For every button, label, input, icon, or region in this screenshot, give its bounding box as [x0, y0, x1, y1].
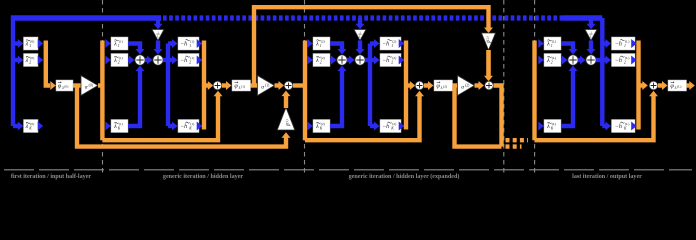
- wire A vertical stage L: [532, 41, 536, 141]
- svg-text:−h: −h: [180, 124, 187, 130]
- separator dashed line 2: [304, 0, 306, 173]
- wire hK out stage 2: [399, 122, 405, 131]
- adder U2 stage 2: [355, 55, 365, 65]
- wire C vertical stage L: [636, 41, 640, 130]
- wire amp2 to adder b3: [475, 83, 480, 87]
- adder final: [649, 81, 658, 90]
- wire lambda2 out stage 2: [330, 58, 334, 62]
- svg-text:2: 2: [118, 60, 120, 64]
- wire bus drop into scaler stage 1: [156, 18, 160, 24]
- box lambda2 (L): [544, 54, 561, 67]
- svg-text:1: 1: [551, 44, 553, 48]
- wire busP a1 from A2 to adder3: [305, 96, 420, 141]
- svg-text:1: 1: [624, 44, 626, 48]
- adder b stage2: [284, 81, 293, 90]
- box lambda1 (L): [544, 37, 561, 50]
- wire adder1-adder2 stage L: [578, 58, 583, 62]
- svg-text:first iteration / input half-l: first iteration / input half-layer: [11, 174, 92, 180]
- wire top blue bus solid left: [11, 15, 161, 20]
- svg-text:λ: λ: [113, 42, 117, 48]
- wire final output arrow: [687, 83, 690, 87]
- wire sumtri to adder b: [284, 96, 288, 109]
- wire a1 path to A2: [293, 83, 305, 87]
- wire adder3 to phi2: [424, 83, 429, 87]
- adder U1 stage L: [568, 55, 578, 65]
- wire C to output adder stage 1: [204, 83, 209, 87]
- gain triangle beta2 down: [482, 33, 496, 50]
- svg-text:last iteration / output layer: last iteration / output layer: [572, 174, 642, 180]
- separator dashed line 3: [503, 0, 505, 173]
- svg-text:λ: λ: [315, 124, 319, 130]
- wire top orange into beta2 tri: [486, 27, 490, 29]
- svg-text:2: 2: [320, 60, 322, 64]
- wire C vertical stage 2: [404, 41, 408, 130]
- wire C vertical stage 1: [202, 41, 206, 130]
- wire arrow into h box stage 2: [370, 58, 374, 62]
- wire B vertical stage 2: [368, 44, 372, 127]
- svg-text:−h: −h: [615, 124, 622, 130]
- svg-text:−h: −h: [180, 58, 187, 64]
- svg-text:2: 2: [189, 60, 191, 64]
- box hK (L): [612, 120, 636, 133]
- wire busP a(L-1) from A4 to final adder: [535, 96, 654, 141]
- svg-text:−h: −h: [382, 124, 389, 130]
- box hK (1): [178, 120, 199, 133]
- wire adder2 out to B stage 2: [365, 58, 370, 62]
- wire beta2 to adder b3: [486, 50, 491, 76]
- svg-text:−h: −h: [382, 58, 389, 64]
- wire arrow into lambdaL box 1: [538, 39, 544, 48]
- wire top blue bus solid right: [563, 15, 602, 20]
- svg-text:−h: −h: [615, 58, 622, 64]
- svg-text:(1): (1): [241, 85, 245, 89]
- wire bus drop into scaler stage L: [589, 18, 593, 24]
- label generic iteration / hidden layer: [163, 174, 244, 180]
- box lambdaK (L): [544, 120, 561, 133]
- svg-text:α: α: [85, 85, 88, 91]
- wire amp1 to adder b: [275, 83, 280, 87]
- wire lambdaK out stage 1: [128, 71, 140, 127]
- wire arrow into lambda0 box 1: [13, 41, 19, 45]
- svg-text:(2): (2): [443, 85, 447, 89]
- box lambda2 (1): [111, 54, 128, 67]
- wire arrow into h box stage 1: [168, 124, 172, 128]
- separator dashed line 1: [102, 0, 104, 173]
- box phi (2): [434, 80, 453, 91]
- box lambdaK (0): [24, 120, 39, 133]
- wire lambda0 box output arrow: [38, 56, 44, 65]
- gain triangle beta1 up: [277, 108, 295, 131]
- wire arrow into lambda2 box 2: [307, 56, 313, 65]
- wire top blue bus dotted: [163, 15, 563, 20]
- box phi (1): [232, 80, 251, 91]
- svg-text:1: 1: [118, 44, 120, 48]
- wire h1 out stage 1: [197, 39, 203, 48]
- wire h1 out stage 2: [399, 39, 405, 48]
- svg-text:2: 2: [29, 60, 31, 64]
- svg-text:1: 1: [189, 44, 191, 48]
- wire top blue corner into B4: [600, 18, 604, 44]
- svg-text:λ: λ: [113, 58, 117, 64]
- svg-text:φ: φ: [234, 83, 238, 90]
- box lambda1 (0): [24, 37, 39, 50]
- wire lambda0 box output arrow: [38, 39, 44, 48]
- svg-text:λ: λ: [546, 42, 550, 48]
- wire arrow into h box stage 1: [168, 41, 172, 45]
- wire arrow into h box stage L: [602, 41, 605, 45]
- amp a(2): [458, 76, 475, 96]
- wire lambda2 out stage L: [561, 58, 565, 62]
- wire arrow into lambda1 box 1: [105, 39, 111, 48]
- box h2 (2): [380, 54, 401, 67]
- wire scaler to adder2 stage 1: [156, 41, 160, 50]
- wire dotted bus row2 gap: [506, 144, 522, 148]
- svg-text:φ: φ: [436, 83, 440, 90]
- svg-text:−h: −h: [615, 42, 622, 48]
- wire arrow into lambdaL box 2: [538, 56, 544, 65]
- scaler triangle stage 1: [152, 30, 164, 41]
- wire h2 out stage 1: [197, 56, 203, 65]
- box lambda1 (1): [111, 37, 128, 50]
- wire C to output adder stage L: [639, 83, 644, 87]
- wire hK out stage 1: [197, 122, 203, 131]
- svg-text:(0): (0): [64, 85, 68, 89]
- box lambdaK (2): [313, 120, 330, 133]
- wire h2 out stage L: [631, 56, 637, 65]
- wire phi1 to amp1: [251, 83, 259, 87]
- wire adder1-adder2 stage 1: [145, 58, 150, 62]
- amp a(1): [258, 76, 275, 96]
- svg-text:1: 1: [29, 44, 31, 48]
- wire hK out stage L: [631, 122, 637, 131]
- wire input vertical: [11, 16, 15, 126]
- wire B vertical stage 1: [166, 44, 170, 127]
- wire arrow into lambda2 box 1: [307, 39, 313, 48]
- box phi (L): [668, 80, 687, 91]
- svg-text:λ: λ: [25, 58, 29, 64]
- wire amp0 output: [98, 83, 105, 87]
- label generic iteration / hidden layer (expanded): [349, 173, 460, 180]
- adder main stage2 output: [415, 81, 424, 90]
- wire A vertical stage 2: [303, 41, 307, 141]
- svg-text:generic iteration / hidden lay: generic iteration / hidden layer (expand…: [349, 173, 460, 180]
- wire busP a0 from A1 to adder: [102, 96, 218, 141]
- bottom rule: [4, 169, 692, 171]
- svg-text:φ: φ: [670, 83, 674, 90]
- box lambdaK (1): [111, 120, 128, 133]
- label last iteration / output layer: [572, 174, 642, 180]
- wire arrow into lambda0 box K: [13, 124, 19, 128]
- wire lambda1 out stage 2: [330, 44, 342, 50]
- svg-text:2: 2: [391, 60, 393, 64]
- svg-text:α: α: [261, 85, 264, 91]
- adder U1 stage 1: [135, 55, 145, 65]
- svg-text:generic iteration / hidden lay: generic iteration / hidden layer: [163, 174, 244, 180]
- box phi (0): [56, 80, 73, 91]
- svg-text:λ: λ: [25, 42, 29, 48]
- box lambda2 (2): [313, 54, 330, 67]
- box h1 (1): [178, 37, 199, 50]
- svg-text:−h: −h: [382, 42, 389, 48]
- svg-text:α: α: [461, 85, 464, 91]
- scaler triangle stage L: [585, 30, 597, 41]
- wire a2 path corner down: [494, 86, 502, 147]
- svg-text:1: 1: [391, 44, 393, 48]
- wire adder2 out to B stage 1: [163, 58, 168, 62]
- wire arrow into h box stage 1: [168, 58, 172, 62]
- wire arrow into h box stage L: [602, 58, 605, 62]
- wire lambdaK out stage 2: [330, 71, 342, 127]
- box hK (2): [380, 120, 401, 133]
- label first iteration / input half-layer: [11, 174, 92, 180]
- box lambda1 (2): [313, 37, 330, 50]
- wire dotted bus row1 gap: [506, 138, 529, 142]
- svg-text:λ: λ: [546, 124, 550, 130]
- wire C to output adder stage 2: [406, 83, 411, 87]
- wire h2 out stage 2: [399, 56, 405, 65]
- wire arrow into lambda2 box K: [307, 122, 313, 131]
- wire arrow into lambda0 box 2: [13, 58, 19, 62]
- adder main stage1 output: [213, 81, 222, 90]
- wire arrow into h box stage L: [602, 124, 605, 128]
- wire h1 out stage L: [631, 39, 637, 48]
- scaler triangle stage 2: [354, 30, 366, 41]
- svg-text:φ: φ: [58, 83, 62, 90]
- svg-text:−h: −h: [180, 42, 187, 48]
- wire lambdaK out stage L: [561, 71, 573, 127]
- svg-text:2: 2: [551, 60, 553, 64]
- wire scaler to adder2 stage 2: [358, 41, 362, 50]
- wire final adder to phiL: [658, 83, 663, 87]
- wire B vertical stage L: [600, 44, 604, 127]
- wire lambda0 box output arrow: [38, 122, 44, 131]
- box h2 (1): [178, 54, 199, 67]
- svg-text:(L): (L): [677, 85, 681, 89]
- wire adder2 out to B stage L: [596, 58, 603, 62]
- wire lambda1 out stage L: [561, 44, 573, 50]
- svg-text:λ: λ: [546, 58, 550, 64]
- adder U2 stage L: [586, 55, 596, 65]
- wire arrow into lambda1 box 2: [105, 56, 111, 65]
- wire busQ phi0-branch to sum-tri: [77, 86, 286, 147]
- separator dashed line 4: [534, 0, 536, 173]
- wire adder1-adder2 stage 2: [347, 58, 352, 62]
- wire arrow into h box stage 2: [370, 124, 374, 128]
- wire top orange bus: [254, 7, 489, 85]
- svg-text:λ: λ: [315, 58, 319, 64]
- wire phi2 to amp2 and down-branch: [453, 83, 459, 87]
- wire arrow into lambdaL box K: [538, 122, 544, 131]
- wire phi2 branch down busQ3: [455, 86, 502, 147]
- wire phi0 to amp: [73, 83, 82, 87]
- svg-text:λ: λ: [315, 42, 319, 48]
- box h1 (2): [380, 37, 401, 50]
- wire arrow into lambda1 box K: [105, 122, 111, 131]
- wire scaler to adder2 stage L: [589, 41, 593, 50]
- box h1 (L): [612, 37, 636, 50]
- adder U1 stage 2: [337, 55, 347, 65]
- wire adder to phi1: [222, 83, 227, 87]
- wire lambda2 out stage 1: [128, 58, 132, 62]
- box lambda2 (0): [24, 54, 39, 67]
- adder U2 stage 1: [153, 55, 163, 65]
- box h2 (L): [612, 54, 636, 67]
- svg-text:λ: λ: [25, 124, 29, 130]
- wire lambda1 out stage 1: [128, 44, 140, 50]
- wire collector E vertical: [46, 41, 50, 86]
- wire A vertical stage 1: [100, 41, 104, 141]
- wire bus drop into scaler stage 2: [358, 18, 362, 24]
- svg-text:λ: λ: [113, 124, 117, 130]
- svg-text:1: 1: [320, 44, 322, 48]
- amp a(0): [81, 76, 98, 96]
- wire arrow into h box stage 2: [370, 41, 374, 45]
- svg-text:2: 2: [624, 60, 626, 64]
- adder b stage3: [485, 81, 494, 90]
